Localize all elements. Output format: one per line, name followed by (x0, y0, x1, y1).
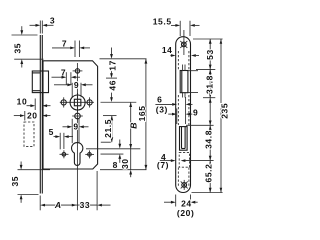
dim 34.8 (204, 125, 214, 160)
latch leader lines (188, 71, 198, 93)
euro profile cylinder (72, 143, 83, 166)
side hole right (87, 97, 92, 107)
dim 31.8 (205, 69, 215, 98)
faceplate extension above for dim 3 (40, 21, 42, 34)
tick body top (100, 58, 147, 60)
svg-text:9: 9 (193, 107, 198, 117)
tick 9/34.8 (186, 124, 214, 126)
tick 17/46 (106, 77, 117, 79)
cylinder side hole right (88, 150, 92, 158)
dim 4 (7) leader (157, 152, 214, 170)
dim 7 upper (52, 38, 90, 57)
svg-text:15.5: 15.5 (153, 16, 172, 26)
tick cylinder holes (101, 153, 124, 155)
svg-text:20: 20 (27, 111, 38, 121)
svg-text:34.8: 34.8 (204, 130, 214, 149)
svg-text:(7): (7) (157, 160, 169, 170)
deadbolt cutout (180, 127, 188, 151)
dim 235 (220, 39, 230, 193)
plate centerline top (183, 30, 185, 55)
bottom screw hole (181, 180, 188, 190)
svg-text:14: 14 (162, 45, 173, 55)
axis centerline (76, 63, 78, 210)
svg-text:9: 9 (73, 122, 78, 132)
dim 53 (205, 39, 215, 69)
dim 30 (120, 158, 132, 177)
case dashed lines (178, 51, 189, 186)
dim 9 follower square (54, 80, 93, 97)
svg-text:53: 53 (205, 49, 215, 60)
top screw hole (180, 41, 187, 48)
follower (square spindle hub) (70, 93, 85, 112)
dim 10 latch projection (17, 97, 51, 111)
dim 17 (107, 48, 117, 79)
svg-text:35: 35 (13, 43, 23, 54)
dim 3 (faceplate thickness) (30, 15, 56, 26)
dim 9 cylinder (63, 119, 89, 143)
svg-text:165: 165 (137, 105, 147, 121)
svg-text:9: 9 (74, 80, 79, 90)
latch bolt (32, 71, 48, 93)
cylinder side hole left (62, 150, 66, 158)
svg-text:17: 17 (107, 60, 117, 71)
side hole left (61, 97, 66, 107)
svg-text:3: 3 (50, 15, 55, 25)
dim 35 top (12, 26, 44, 67)
dim 165 (137, 59, 147, 170)
tick 31.8/9 (203, 97, 215, 99)
cylinder row centerline (60, 153, 95, 155)
dim B (128, 102, 138, 169)
dim 24 (164, 195, 198, 209)
cylinder dashed box (179, 153, 189, 168)
tick plate top (193, 38, 223, 40)
dim 14 (162, 45, 199, 57)
faceplate edge-on (double line) (40, 35, 42, 194)
dim 7 lower (52, 68, 81, 85)
svg-text:5: 5 (49, 127, 54, 137)
svg-text:235: 235 (220, 103, 230, 119)
svg-text:(20): (20) (177, 208, 195, 218)
svg-text:8: 8 (113, 160, 118, 170)
svg-text:31.8: 31.8 (205, 75, 215, 94)
latch cutout (180, 71, 188, 93)
tick plate bottom (192, 192, 223, 194)
follower row centerline (60, 101, 94, 103)
dim 9 faceplate horizontal (168, 107, 198, 124)
svg-text:7: 7 (62, 38, 67, 48)
dim 21.5 (101, 116, 117, 143)
svg-text:35: 35 (10, 176, 20, 187)
svg-text:30: 30 (120, 158, 130, 169)
faceplate outline (176, 37, 191, 193)
dim 20 (14, 111, 51, 121)
hole below follower (72, 113, 83, 119)
svg-text:10: 10 (17, 97, 28, 107)
dim A backset (40, 171, 97, 210)
dim 65.2 (204, 161, 214, 193)
tick 53/31.8 (196, 68, 215, 70)
svg-text:46: 46 (107, 80, 117, 91)
svg-text:65.2: 65.2 (204, 164, 214, 183)
dim 8 (113, 140, 122, 171)
chain segment between 31.8 and 34.8 (209, 98, 212, 125)
dim 5 cylinder offset (49, 127, 73, 149)
tick follower axis (101, 101, 137, 103)
svg-text:(3): (3) (156, 104, 168, 114)
dim 6 (3) (155, 95, 192, 115)
dim 33 (77, 200, 111, 210)
latch witness dashes (183, 65, 185, 98)
tick body bottom (100, 169, 147, 171)
svg-text:21.5: 21.5 (103, 119, 113, 138)
dim 15.5 (153, 16, 200, 36)
lock case body outline (43, 61, 98, 169)
dashed strike box (24, 122, 34, 146)
dim 46 (107, 80, 117, 102)
svg-text:33: 33 (80, 200, 91, 210)
tick cylinder axis (86, 148, 140, 150)
top hole (73, 69, 83, 73)
svg-text:B: B (128, 122, 138, 128)
svg-text:A: A (54, 200, 61, 210)
svg-text:6: 6 (157, 95, 162, 105)
dim 35 bottom (10, 162, 50, 203)
